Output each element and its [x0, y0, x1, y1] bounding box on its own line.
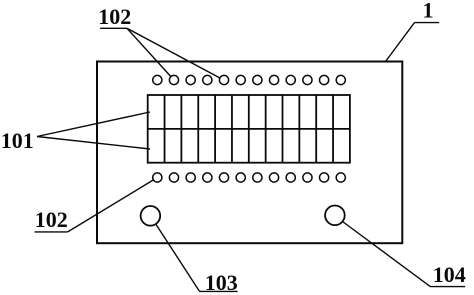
cell divider v10 — [315, 95, 317, 163]
bottom hole row 102 — [153, 173, 346, 182]
leader 102 to hole T2 — [127, 28, 171, 76]
hole T7 — [253, 75, 262, 84]
hole T12 — [336, 75, 345, 84]
hole B10 — [303, 173, 312, 182]
label 1 underline — [415, 22, 440, 24]
hole T10 — [303, 75, 312, 84]
hole B8 — [269, 173, 278, 182]
leader 102 to hole B1 — [68, 180, 154, 232]
hole B2 — [169, 173, 178, 182]
svg-text:102: 102 — [35, 207, 68, 232]
hole B4 — [203, 173, 212, 182]
hole B12 — [336, 173, 345, 182]
cell block frame 101 — [148, 95, 350, 163]
cell divider v5 — [231, 95, 233, 163]
port 103 (left large circle) — [141, 206, 161, 226]
leader 1 to panel edge — [386, 23, 415, 62]
hole T4 — [203, 75, 212, 84]
cell divider v4 — [214, 95, 216, 163]
hole T3 — [186, 75, 195, 84]
svg-text:102: 102 — [98, 4, 131, 29]
hole T11 — [320, 75, 329, 84]
hole B3 — [186, 173, 195, 182]
hole B11 — [320, 173, 329, 182]
hole T2 — [169, 75, 178, 84]
hole B1 — [153, 173, 162, 182]
hole B6 — [236, 173, 245, 182]
label 104 underline — [430, 286, 465, 288]
svg-text:1: 1 — [423, 0, 434, 23]
label 102 underline — [100, 27, 127, 29]
hole B7 — [253, 173, 262, 182]
svg-text:104: 104 — [433, 262, 466, 287]
hole T8 — [269, 75, 278, 84]
cell divider v2 — [180, 95, 182, 163]
cell divider v8 — [282, 95, 284, 163]
leader 103 to port — [156, 224, 200, 291]
label 102 lower underline — [35, 231, 68, 233]
cell divider v3 — [197, 95, 199, 163]
svg-text:101: 101 — [1, 128, 34, 153]
hole B5 — [219, 173, 228, 182]
panel body 1 (outer rectangle) — [97, 62, 402, 244]
top hole row 102 — [153, 75, 346, 84]
leader 101 to upper cell row — [37, 112, 150, 137]
port 104 (right large circle) — [325, 206, 345, 226]
hole B9 — [286, 173, 295, 182]
cell divider v1 — [164, 95, 166, 163]
hole T1 — [153, 75, 162, 84]
cell divider v6 — [248, 95, 250, 163]
leader 101 to lower cell row — [37, 137, 150, 150]
cell row divider — [148, 128, 350, 130]
cell divider v7 — [265, 95, 267, 163]
cell divider v9 — [298, 95, 300, 163]
leader 104 to port — [343, 222, 431, 287]
hole T5 — [219, 75, 228, 84]
hole T9 — [286, 75, 295, 84]
leader 102 to hole T5 — [127, 28, 220, 78]
hole T6 — [236, 75, 245, 84]
cell divider v11 — [332, 95, 334, 163]
label 103 underline — [200, 290, 238, 292]
